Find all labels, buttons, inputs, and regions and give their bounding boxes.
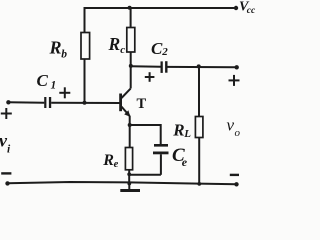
svg-text:b: b bbox=[61, 48, 67, 60]
label C1 bbox=[37, 71, 57, 91]
label Ce bbox=[172, 145, 188, 169]
svg-text:R: R bbox=[49, 38, 62, 58]
junction Re bottom link bbox=[127, 172, 131, 176]
wire Re bottom bbox=[128, 170, 130, 184]
resistor Re bbox=[125, 148, 132, 170]
wire collector branch bbox=[130, 52, 132, 89]
svg-text:R: R bbox=[108, 34, 121, 54]
terminal dot bottom left bbox=[5, 181, 9, 185]
wire Rc branch top bbox=[130, 7, 132, 28]
capacitor C2 bbox=[161, 61, 168, 73]
resistor RL bbox=[195, 117, 203, 138]
label Vcc bbox=[239, 0, 256, 16]
wire emitter to Ce top bbox=[130, 125, 161, 145]
svg-text:1: 1 bbox=[51, 79, 57, 91]
junction emitter node bbox=[128, 123, 132, 127]
terminal dot bottom right bbox=[234, 182, 238, 186]
wire input to C1 bbox=[8, 101, 44, 103]
transistor T bbox=[119, 89, 130, 117]
wire RL branch top bbox=[198, 66, 200, 116]
wire Ce bottom stub bbox=[160, 154, 162, 175]
svg-text:e: e bbox=[114, 159, 119, 170]
plus sign input bbox=[1, 108, 12, 119]
svg-text:o: o bbox=[235, 127, 241, 139]
terminal dot Vcc bbox=[234, 6, 238, 10]
plus sign output bbox=[229, 75, 240, 86]
wire top rail (Vcc rail) bbox=[85, 7, 237, 9]
resistor Rb bbox=[81, 33, 90, 60]
svg-text:L: L bbox=[183, 128, 191, 140]
svg-text:C: C bbox=[151, 39, 163, 58]
label Rb bbox=[49, 38, 68, 61]
svg-text:2: 2 bbox=[161, 46, 168, 58]
minus sign output bbox=[230, 174, 239, 176]
wire C1 to base bbox=[51, 102, 119, 104]
svg-text:T: T bbox=[137, 96, 147, 112]
svg-text:R: R bbox=[172, 120, 184, 139]
capacitor C1 bbox=[44, 97, 51, 108]
wire Rb branch top bbox=[84, 7, 86, 33]
wire bottom rail bbox=[8, 182, 237, 184]
resistor Rc bbox=[127, 28, 135, 53]
wire collector to C2 bbox=[131, 65, 161, 68]
label Re bbox=[102, 152, 118, 170]
label RL bbox=[172, 120, 191, 139]
terminal dot output top bbox=[235, 65, 239, 69]
junction base x Rb bbox=[83, 101, 87, 105]
svg-text:cc: cc bbox=[247, 6, 256, 16]
minus sign input bbox=[1, 172, 11, 174]
label T bbox=[137, 96, 147, 112]
label vi bbox=[0, 131, 11, 156]
svg-text:v: v bbox=[227, 116, 235, 135]
ground bbox=[120, 184, 140, 191]
wire C2 to output bbox=[168, 66, 237, 68]
plus sign at C2 bbox=[145, 72, 155, 82]
wire Rb branch bottom bbox=[84, 59, 86, 104]
svg-text:e: e bbox=[182, 155, 188, 169]
wire Ce to Re bottom link bbox=[129, 174, 161, 176]
svg-text:C: C bbox=[37, 71, 49, 90]
capacitor Ce bbox=[153, 144, 169, 154]
svg-text:c: c bbox=[120, 44, 125, 56]
wire RL branch bottom bbox=[198, 138, 200, 184]
terminal dot input bbox=[6, 100, 10, 104]
junction bottom rail x Re bbox=[127, 182, 131, 186]
plus sign at C1 bbox=[59, 87, 70, 98]
junction top rail x Rc bbox=[128, 6, 132, 10]
junction collector node bbox=[129, 64, 133, 68]
wire emitter vertical bbox=[129, 116, 131, 148]
label C2 bbox=[151, 39, 168, 58]
junction bottom rail x RL bbox=[197, 182, 201, 186]
label Rc bbox=[108, 34, 126, 56]
label vo bbox=[227, 116, 241, 139]
svg-text:R: R bbox=[102, 152, 114, 169]
junction RL top bbox=[197, 64, 201, 68]
